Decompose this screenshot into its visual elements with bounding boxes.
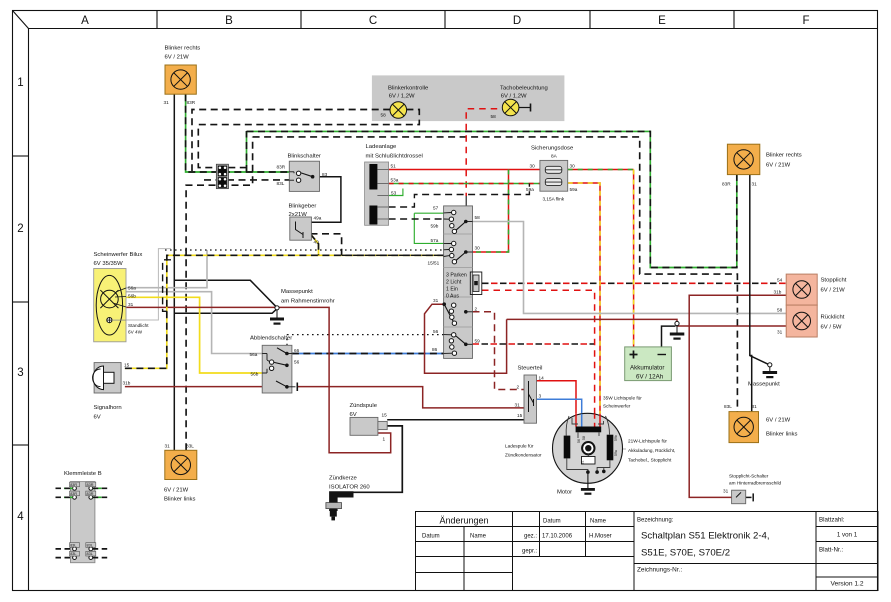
svg-text:31: 31 <box>752 404 758 409</box>
svg-text:Massepunkt: Massepunkt <box>281 289 313 295</box>
svg-text:83R: 83R <box>87 492 94 496</box>
svg-text:53a: 53a <box>391 178 399 183</box>
sicherungsdose (fuse box) <box>526 146 578 202</box>
svg-text:Akkuladung, Rücklicht,: Akkuladung, Rücklicht, <box>628 448 675 453</box>
svg-text:Stopplicht-Schalter: Stopplicht-Schalter <box>729 474 769 479</box>
svg-text:Steuerteil: Steuerteil <box>518 366 543 372</box>
wire 35W coil feed (red dashed) <box>482 290 595 414</box>
wire 15 horn to 15/51 (yellow/black) <box>125 255 452 368</box>
wire 53a Ladeanlage to fuse 59a (green/red) <box>389 183 540 185</box>
svg-text:6V / 1,2W: 6V / 1,2W <box>501 94 527 100</box>
wire 31 rear blinker to ground <box>750 175 769 365</box>
wire 56 blue to light switch (blue/black) <box>292 353 452 355</box>
svg-text:31: 31 <box>165 444 171 449</box>
wire 49 parallel jog (black dashed) <box>311 234 342 256</box>
wire 83L long run to rear left blinker (black dashed) <box>253 137 738 412</box>
blinker rechts vorn (front right indicator) <box>164 46 201 106</box>
steuerteil (control unit) <box>515 366 545 424</box>
wire 31b Abblendschalter onward to Steuerteil 31 (dark red) <box>298 387 525 408</box>
light switch group 58 contacts <box>431 206 481 234</box>
blinkerkontrolle indicator lamp <box>381 86 429 119</box>
svg-text:am Rahmenstirnrohr: am Rahmenstirnrohr <box>281 299 335 305</box>
scheinwerfer bilux (headlight) <box>94 252 150 342</box>
svg-text:51: 51 <box>391 164 397 169</box>
wire 56b headlight to Abblendschalter (yellow) <box>126 297 262 373</box>
wire 56 Abblendschalter to switch dotted <box>287 335 451 346</box>
svg-text:31b: 31b <box>774 290 782 295</box>
svg-text:Tachobel., Stopplicht: Tachobel., Stopplicht <box>628 458 672 463</box>
svg-text:56a: 56a <box>128 286 136 291</box>
wire 83 Blinkschalter to Blinkgeber 49a <box>311 177 341 223</box>
svg-text:Abblendschalter: Abblendschalter <box>250 336 292 342</box>
blinkgeber (flasher relay) <box>289 204 322 245</box>
wire 58 into switch (black) <box>465 196 467 221</box>
svg-text:83R: 83R <box>87 483 94 487</box>
svg-text:83L: 83L <box>186 444 194 449</box>
svg-text:6V / 1,2W: 6V / 1,2W <box>389 94 415 100</box>
wire 83L row to Blinkschalter <box>204 179 289 181</box>
svg-text:1 Ein: 1 Ein <box>446 287 458 293</box>
svg-text:Ladeanlage: Ladeanlage <box>366 144 398 150</box>
wire 58 Blinkerkontrolle left (black dashed) <box>192 110 390 172</box>
wire 59b Ladeanlage to switch (black dashed) <box>389 218 452 220</box>
svg-text:31: 31 <box>515 403 521 408</box>
wire 56a parking branch (gray) <box>126 250 207 288</box>
svg-text:Blinker links: Blinker links <box>164 497 195 503</box>
blinker links vorn (front left indicator) <box>164 444 197 503</box>
wire battery minus to ground bus <box>662 326 676 347</box>
wire 15/51 black dashed into switch <box>342 255 453 258</box>
wire 56a headlight to Abblendschalter (gray) <box>126 292 262 354</box>
svg-text:am Hinterradbremsschild: am Hinterradbremsschild <box>729 481 781 486</box>
wire 31 rear left blinker riser <box>750 356 752 412</box>
ruecklicht (tail light) <box>777 305 845 337</box>
svg-text:58: 58 <box>777 308 783 313</box>
svg-text:17.10.2006: 17.10.2006 <box>542 534 573 540</box>
light switch mechanical link <box>470 272 482 295</box>
svg-text:1: 1 <box>383 437 386 442</box>
optional-equipment bracket at headlight (black dashed) <box>163 260 171 312</box>
svg-text:56b: 56b <box>251 372 259 377</box>
wire 83L front: connector to Blinker links vorn <box>186 137 253 450</box>
svg-text:2: 2 <box>517 385 520 390</box>
svg-text:6V / 21W: 6V / 21W <box>766 163 791 169</box>
svg-text:58: 58 <box>475 215 481 220</box>
svg-text:A: A <box>81 15 89 27</box>
svg-text:83L: 83L <box>70 552 76 556</box>
svg-text:15: 15 <box>382 413 388 418</box>
wire fuse 30 to battery plus (red/green) <box>568 169 634 171</box>
svg-text:15/51: 15/51 <box>428 261 440 266</box>
leader 21W coil <box>616 448 627 450</box>
stopplicht-schalter (brake light switch) <box>723 474 781 504</box>
wire 31 ground bus to Ruecklicht (dark red) <box>507 319 787 326</box>
ground node battery/frame rear <box>670 321 685 339</box>
svg-text:Klemmleiste B: Klemmleiste B <box>64 471 102 477</box>
wire 31 front: Blinker rechts vorn to Blinker links vorn <box>173 94 175 450</box>
svg-text:6V / 21W: 6V / 21W <box>821 288 846 294</box>
svg-text:31: 31 <box>128 302 134 307</box>
svg-text:Blinkerkontrolle: Blinkerkontrolle <box>388 86 429 92</box>
light switch group 30 contacts <box>428 238 481 266</box>
svg-text:31: 31 <box>581 461 585 465</box>
connector block 4-pin <box>216 164 228 188</box>
svg-text:31: 31 <box>777 330 783 335</box>
svg-text:Blinkgeber: Blinkgeber <box>289 204 317 210</box>
svg-text:15: 15 <box>124 363 130 368</box>
svg-text:4: 4 <box>17 511 24 523</box>
svg-text:83L: 83L <box>724 404 732 409</box>
wire 59 from light switch to generator feed (red/black dashed) <box>473 343 595 345</box>
svg-text:54: 54 <box>777 278 783 283</box>
svg-text:Änderungen: Änderungen <box>439 516 488 526</box>
control lamp panel (Blinkerkontrolle / Tachobeleuchtung) <box>372 75 565 121</box>
svg-text:8A: 8A <box>551 154 558 159</box>
svg-text:59b: 59b <box>431 224 439 229</box>
svg-text:14: 14 <box>539 376 545 381</box>
svg-text:C: C <box>369 15 377 27</box>
svg-text:35W Lichtspule für: 35W Lichtspule für <box>603 396 642 401</box>
svg-text:Version 1.2: Version 1.2 <box>831 581 864 588</box>
svg-text:Stopplicht: Stopplicht <box>821 278 847 284</box>
svg-text:57: 57 <box>433 206 439 211</box>
svg-text:30: 30 <box>530 164 536 169</box>
motor generator unit <box>553 413 623 495</box>
svg-text:31: 31 <box>723 489 729 494</box>
svg-text:31: 31 <box>164 100 170 105</box>
svg-text:Standlicht: Standlicht <box>128 323 149 328</box>
svg-text:57a: 57a <box>431 238 439 243</box>
svg-text:Name: Name <box>590 519 607 525</box>
svg-text:56a: 56a <box>250 352 258 357</box>
svg-text:Name: Name <box>470 534 487 540</box>
svg-text:49: 49 <box>314 240 320 245</box>
wire 1 Zuendspule to spark plug <box>354 426 403 492</box>
blinkschalter (turn signal switch) <box>277 154 328 192</box>
wire Tachobeleuchtung 58 (red dashed) <box>466 109 497 196</box>
wire 83R front blinker drop (green/black) <box>186 94 290 172</box>
svg-text:83R: 83R <box>70 492 77 496</box>
svg-text:mit Schlußlichtdrossel: mit Schlußlichtdrossel <box>366 154 423 160</box>
wire Blinkerkontrolle right loop <box>198 110 419 172</box>
wire 31 headlight ground run (dark red) <box>126 307 391 452</box>
svg-text:Scheinwerfer: Scheinwerfer <box>603 404 631 409</box>
svg-text:1: 1 <box>17 77 23 89</box>
svg-text:6V / 21W: 6V / 21W <box>766 418 791 424</box>
svg-text:6V 4W: 6V 4W <box>128 330 143 335</box>
svg-text:31: 31 <box>752 182 758 187</box>
svg-text:F: F <box>802 15 809 27</box>
svg-text:Zeichnungs-Nr.:: Zeichnungs-Nr.: <box>637 567 682 574</box>
wire 31 branch to frame ground (upper) <box>174 280 276 307</box>
svg-text:Rücklicht: Rücklicht <box>821 315 845 321</box>
title block <box>416 512 879 591</box>
svg-text:Ladespule für: Ladespule für <box>505 444 534 449</box>
svg-text:0 Aus: 0 Aus <box>446 294 459 300</box>
svg-text:83L: 83L <box>70 544 76 548</box>
svg-text:ISOLATOR 260: ISOLATOR 260 <box>329 485 370 491</box>
svg-text:Zündspule: Zündspule <box>350 403 378 409</box>
svg-text:Datum: Datum <box>543 519 561 525</box>
wire 14 Steuerteil to generator (red) <box>537 381 577 414</box>
wire 31 branch to frame ground (lower) <box>174 309 277 314</box>
svg-text:Blinkschalter: Blinkschalter <box>288 154 321 160</box>
svg-text:49a: 49a <box>314 216 322 221</box>
zuendspule (ignition coil) <box>350 403 388 442</box>
svg-text:1 von 1: 1 von 1 <box>837 532 858 539</box>
stopplicht (stop light) <box>774 274 847 305</box>
ladeanlage mit schlusslichtdrossel <box>365 144 423 225</box>
svg-text:2: 2 <box>17 223 23 235</box>
massepunkt rear (ground) <box>748 363 780 388</box>
svg-text:gez.:: gez.: <box>524 534 537 540</box>
wire 2 light switch to Steuerteil (dark red dashed) <box>473 312 525 390</box>
svg-text:56b: 56b <box>128 294 136 299</box>
wire 15 Zuendspule to Steuerteil (black) <box>387 419 524 421</box>
wire 31b to Stopplicht and stop switch (dark red) <box>689 295 786 497</box>
wire fuse 59a to generator 21W coil (red/yellow) <box>568 183 600 414</box>
svg-text:2: 2 <box>475 307 478 312</box>
svg-text:6V: 6V <box>94 415 101 421</box>
wire 30 branch to light switch (red/green) <box>473 170 509 253</box>
svg-text:59: 59 <box>475 339 481 344</box>
svg-text:21W-Lichtspule für: 21W-Lichtspule für <box>628 439 667 444</box>
svg-text:83L: 83L <box>87 552 93 556</box>
svg-text:58: 58 <box>582 436 586 440</box>
wire 49 Blinkgeber drop <box>311 234 319 255</box>
svg-text:83R: 83R <box>70 483 77 487</box>
blinker rechts hinten (rear right indicator) <box>722 144 802 186</box>
svg-text:Datum: Datum <box>422 534 440 540</box>
klemmleiste B (terminal strip) <box>64 471 102 563</box>
wire 31b horn to Abblendschalter (dark red) <box>125 386 262 388</box>
svg-text:83L: 83L <box>87 544 93 548</box>
svg-text:86: 86 <box>432 347 438 352</box>
svg-text:83L: 83L <box>277 181 285 186</box>
svg-text:83R: 83R <box>187 100 196 105</box>
svg-text:E: E <box>658 15 666 27</box>
svg-text:53: 53 <box>391 191 397 196</box>
akkumulator (battery) <box>625 347 672 381</box>
svg-text:Blinker rechts: Blinker rechts <box>766 153 802 159</box>
lichtschalter (main light switch) <box>444 206 473 359</box>
zuendkerze (spark plug) <box>326 476 371 521</box>
svg-text:Massepunkt: Massepunkt <box>748 382 780 388</box>
svg-text:59b: 59b <box>614 435 618 441</box>
svg-text:6V / 12Ah: 6V / 12Ah <box>636 374 664 381</box>
svg-text:S51E, S70E, S70E/2: S51E, S70E, S70E/2 <box>641 548 730 559</box>
wire 58 light switch to Ruecklicht (gray) <box>473 222 787 314</box>
signalhorn <box>92 363 130 421</box>
svg-text:Schaltplan S51 Elektronik 2-4,: Schaltplan S51 Elektronik 2-4, <box>641 531 770 542</box>
svg-text:Zündkondensator: Zündkondensator <box>505 453 542 458</box>
svg-text:56: 56 <box>577 439 581 443</box>
light switch group 59 contacts <box>432 329 480 355</box>
wire 83R junction up to long run <box>246 131 248 172</box>
svg-text:6V: 6V <box>350 412 357 418</box>
label 21W lichtspule <box>628 439 675 463</box>
svg-text:83: 83 <box>322 172 328 177</box>
svg-text:Tachobeleuchtung: Tachobeleuchtung <box>500 86 548 92</box>
svg-text:59a: 59a <box>614 450 618 456</box>
massepunkt am rahmenstirnrohr (frame ground) <box>270 289 335 325</box>
wire 53 stub (green) <box>389 189 403 196</box>
svg-text:31: 31 <box>433 298 439 303</box>
svg-text:30: 30 <box>475 246 481 251</box>
svg-text:Sicherungsdose: Sicherungsdose <box>531 146 574 152</box>
svg-text:2x21W: 2x21W <box>289 212 308 218</box>
svg-text:D: D <box>513 15 521 27</box>
svg-text:66: 66 <box>294 348 300 353</box>
svg-text:2 Licht: 2 Licht <box>446 280 462 286</box>
blinker links hinten (rear left indicator) <box>724 404 797 443</box>
wire battery plus riser (red/yellow) <box>633 170 635 347</box>
svg-text:15: 15 <box>517 413 523 418</box>
svg-text:H.Moser: H.Moser <box>589 534 612 540</box>
svg-text:Blinker rechts: Blinker rechts <box>165 46 201 52</box>
svg-text:3: 3 <box>17 367 23 379</box>
tachobeleuchtung lamp <box>491 86 548 120</box>
light switch group 31/2 contacts <box>433 298 478 325</box>
wire parking net dotted to switch <box>165 249 451 251</box>
svg-text:59a: 59a <box>526 187 534 192</box>
svg-text:B: B <box>225 15 233 27</box>
wire Ladeanlage lower coil to fuse 59a (black dashed) <box>389 184 530 208</box>
svg-text:Bezeichnung:: Bezeichnung: <box>637 518 674 524</box>
svg-text:6V 35/35W: 6V 35/35W <box>94 261 124 267</box>
svg-text:6V / 5W: 6V / 5W <box>821 325 842 331</box>
svg-text:58: 58 <box>381 113 387 118</box>
wire stop switch tail <box>746 496 752 498</box>
wire 51 Ladeanlage to fuse (red) <box>389 169 540 171</box>
wire 57a green vertical <box>414 213 451 243</box>
svg-text:Blattzahl:: Blattzahl: <box>819 517 845 524</box>
svg-text:Motor: Motor <box>557 490 572 496</box>
svg-text:56: 56 <box>294 360 300 365</box>
svg-text:Zündkerze: Zündkerze <box>329 476 358 482</box>
label 35W lichtspule <box>603 396 642 409</box>
abblendschalter (dimmer switch) <box>250 336 300 394</box>
wire 31 light switch ground loop (dark red) <box>425 304 507 373</box>
wire 3 Steuerteil to generator (blue) <box>537 399 582 414</box>
svg-text:58: 58 <box>491 114 497 119</box>
svg-text:gepr.:: gepr.: <box>522 549 537 555</box>
wire standlicht to parking net (thin gray) <box>113 249 171 320</box>
svg-text:Blinker links: Blinker links <box>766 432 797 438</box>
svg-text:3: 3 <box>539 394 542 399</box>
wire 54 stop light run (red/black dashed) <box>482 282 786 284</box>
svg-text:Scheinwerfer Bilux: Scheinwerfer Bilux <box>94 252 143 258</box>
svg-text:Signalhorn: Signalhorn <box>94 405 122 411</box>
klemmleiste terminals and pigtails <box>56 482 111 559</box>
svg-text:Blatt-Nr.:: Blatt-Nr.: <box>819 547 843 554</box>
svg-text:6V / 21W: 6V / 21W <box>164 488 189 494</box>
svg-text:6V / 21W: 6V / 21W <box>165 55 190 61</box>
svg-text:31b: 31b <box>123 381 131 386</box>
svg-text:3,15A flink: 3,15A flink <box>543 197 565 202</box>
svg-text:59a: 59a <box>570 187 578 192</box>
svg-text:56: 56 <box>433 329 439 334</box>
svg-text:83R: 83R <box>277 165 286 170</box>
label ladespule <box>505 444 542 458</box>
svg-text:30: 30 <box>570 164 576 169</box>
svg-text:83R: 83R <box>722 182 731 187</box>
wire 83R long run to rear right blinker (green/black) <box>247 131 737 267</box>
svg-text:3 Parken: 3 Parken <box>446 273 467 279</box>
wire 57 green <box>414 212 451 214</box>
svg-text:Akkumulator: Akkumulator <box>630 365 664 372</box>
